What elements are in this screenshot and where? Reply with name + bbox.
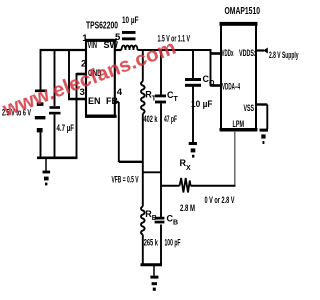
wire VIN rail [40,49,86,51]
watermark www.elecfans.com [0,9,252,123]
wire EN riser [68,50,70,99]
svg-text:RX: RX [180,158,192,172]
svg-text:0 V or 2.8 V: 0 V or 2.8 V [205,195,235,205]
svg-text:10 µF: 10 µF [191,99,213,109]
svg-text:47 pF: 47 pF [164,114,177,124]
wire EN stub pin3 [68,98,86,101]
wire 4.7uF top lead [54,50,56,106]
svg-text:265 k: 265 k [144,238,159,248]
capacitor 10uF top plates [122,31,136,40]
capacitor C-in 4.7uF [49,106,61,114]
svg-text:VSS: VSS [244,103,255,113]
IC U2 OMAP1510 box [220,22,258,131]
svg-text:VFB = 0.5 V: VFB = 0.5 V [112,175,139,185]
capacitor CT 47pF [155,95,166,104]
svg-text:VDDA–4: VDDA–4 [222,82,240,92]
svg-text:LPM: LPM [233,119,245,129]
wire OMAP left vertical [210,49,212,86]
wire CO down lead [192,87,194,142]
IC U1 TPS62200 box [85,39,117,118]
wire VDDx stub [211,52,222,55]
wire RB bottom lead [142,235,144,265]
svg-text:VDDx: VDDx [222,48,234,58]
wire RT-CT connector [143,171,161,173]
svg-text:2.8 V Supply: 2.8 V Supply [269,50,299,60]
ground left [43,171,51,186]
wire battery top lead [40,49,42,90]
wire VSS riser [266,105,268,130]
wire RX left [161,185,180,187]
wire bottom ground rail [141,263,163,266]
wire left ground rail [37,156,78,159]
svg-text:402 k: 402 k [144,114,159,124]
wire battery bottom lead [40,132,42,157]
wire output rail 1.5V [138,49,212,51]
svg-text:EN: EN [88,96,101,106]
ground VSS [260,129,269,144]
wire GND stub pin2 [77,73,87,76]
wire VDDSx stub [256,49,264,51]
svg-text:4.7 µF: 4.7 µF [57,123,75,133]
wire SW stub [115,49,122,51]
wire CT riser [160,50,162,95]
wire left ground stub [45,158,47,171]
svg-text:CB: CB [167,214,179,227]
svg-text:VDDSx: VDDSx [239,48,257,58]
wire LPM riser [234,131,236,185]
wire RX right [191,185,236,187]
svg-text:TPS62200: TPS62200 [86,21,118,32]
wire CB bottom lead [160,225,162,265]
svg-text:10 µF: 10 µF [122,15,139,25]
ground CO [189,142,197,158]
resistor RT 402k [141,82,145,114]
wire FB riser down [118,102,120,162]
svg-text:100 pF: 100 pF [165,238,181,248]
ground bottom [150,276,158,291]
svg-text:CT: CT [167,90,179,103]
wire GND riser [76,73,78,159]
wire C_O riser [192,50,194,78]
wire VSS stub [256,103,267,105]
battery BT1 2.5V-6V [35,90,47,133]
svg-text:RT: RT [145,90,157,103]
capacitor CO 10uF [185,78,201,87]
arrow 2.8V supply [263,48,268,54]
wire 4.7uF bottom lead [54,114,56,157]
wire FB stub [115,101,119,103]
svg-text:RB: RB [145,209,157,222]
wire FB horizontal [119,161,144,163]
svg-text:2.8 M: 2.8 M [180,203,195,214]
resistor RX 2.8M [180,178,191,193]
inductor L1 [122,46,138,50]
wire RT to RB lead [142,114,144,207]
capacitor CB 100pF [155,217,165,224]
wire VDDA-4 stub [211,84,222,87]
resistor RB 265k [141,207,145,235]
wire RT riser [142,50,144,82]
wire bottom ground stub [153,265,155,276]
svg-text:VIN: VIN [88,40,98,50]
svg-text:SW: SW [104,40,119,50]
wire CT down lead [160,103,162,217]
